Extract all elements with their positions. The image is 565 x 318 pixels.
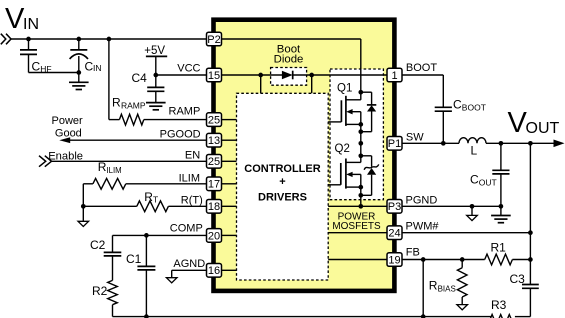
wire VCC to boot diode — [222, 74, 283, 76]
junction CIN bottom — [76, 70, 81, 75]
junction C4 — [153, 73, 158, 78]
svg-text:IN: IN — [93, 63, 102, 73]
svg-text:P1: P1 — [388, 138, 401, 150]
svg-text:R: R — [98, 160, 107, 174]
wire L to VOUT arrow — [486, 142, 557, 144]
junction VIN/CHF — [26, 37, 31, 42]
node VIN input chevron — [1, 34, 11, 45]
wire RT to pin 18 — [168, 205, 206, 207]
svg-text:PWM#: PWM# — [406, 221, 440, 233]
power mosfets block — [330, 69, 383, 200]
pin 17 — [207, 177, 222, 191]
pin P2 — [207, 32, 222, 46]
svg-text:19: 19 — [388, 254, 400, 266]
svg-text:VCC: VCC — [177, 63, 200, 75]
svg-text:OUT: OUT — [526, 120, 560, 137]
wire COMP network to pin 20 — [113, 234, 207, 236]
wire VOUT bus down to C3 — [529, 143, 531, 284]
pin P1 — [387, 137, 402, 151]
resistor RRAMP — [119, 114, 143, 125]
junction RILIM/RT ground — [81, 204, 86, 209]
junction COUT/PGND — [499, 204, 504, 209]
resistor RT — [137, 201, 169, 212]
wire FB controller to pin 19 — [328, 259, 387, 261]
wire Enable to pin EN — [52, 160, 207, 162]
svg-text:C1: C1 — [126, 252, 142, 266]
svg-text:C2: C2 — [90, 238, 106, 252]
wire VIN to RRAMP — [108, 39, 110, 120]
junction VCC/controller — [258, 73, 263, 78]
svg-text:R2: R2 — [92, 284, 108, 298]
ground (C4) — [146, 102, 166, 104]
svg-text:R: R — [112, 96, 121, 110]
svg-text:13: 13 — [208, 135, 220, 147]
svg-text:C: C — [32, 60, 41, 74]
wire PGND pin P3 to grounds — [402, 205, 501, 207]
svg-text:T: T — [153, 195, 158, 205]
wire controller to Q2 gate — [328, 184, 341, 186]
wire RILIM to pin 17 — [126, 183, 207, 185]
svg-text:25: 25 — [208, 115, 220, 127]
node Enable input chevron — [39, 156, 52, 167]
pin 1 — [387, 68, 402, 82]
ground (RILIM/RT) — [82, 206, 84, 221]
svg-text:Good: Good — [55, 127, 82, 139]
junction VOUT/feedback bus — [528, 141, 533, 146]
svg-text:Power: Power — [52, 115, 84, 127]
pin 13 — [207, 133, 222, 147]
wire PGOOD output arrow — [69, 139, 207, 141]
svg-text:R(T): R(T) — [181, 194, 203, 206]
controller block — [237, 93, 329, 280]
junction COUT — [499, 141, 504, 146]
svg-text:EN: EN — [185, 150, 200, 162]
junction PWM#/bus — [528, 230, 533, 235]
junction PGND arrow gnd — [470, 204, 475, 209]
pin 18 — [207, 200, 222, 214]
inductor L — [459, 138, 486, 144]
transistor Q2 (low-side MOSFET) — [335, 141, 379, 206]
svg-text:AGND: AGND — [173, 258, 205, 270]
wire controller to Q1 gate — [328, 121, 341, 123]
wire PWM# controller to pin 24 — [328, 232, 387, 234]
capacitor C4 — [155, 75, 157, 87]
svg-text:+5V: +5V — [144, 45, 165, 57]
pin 24 — [387, 226, 402, 240]
pin 20 — [207, 229, 222, 243]
svg-text:16: 16 — [208, 265, 220, 277]
svg-text:DRIVERS: DRIVERS — [258, 192, 307, 204]
wire boot diode cathode to pin 1 — [293, 74, 387, 76]
svg-text:CONTROLLER: CONTROLLER — [244, 163, 320, 175]
resistor R3 — [490, 315, 516, 318]
wire BOOT pin 1 to CBOOT — [402, 74, 443, 76]
pin 16 — [207, 264, 222, 278]
wire controller stubs to left pins — [222, 119, 237, 121]
ground (PGND arrow) — [467, 215, 478, 220]
svg-text:IN: IN — [23, 16, 39, 33]
svg-text:R: R — [144, 190, 153, 204]
resistor R1 — [485, 254, 513, 265]
svg-text:Q2: Q2 — [335, 143, 350, 155]
svg-text:RAMP: RAMP — [121, 101, 146, 111]
junction boot/driver — [309, 73, 314, 78]
capacitor C3 — [522, 284, 539, 286]
svg-text:Q1: Q1 — [337, 83, 352, 95]
svg-text:ILIM: ILIM — [179, 172, 200, 184]
svg-text:ILIM: ILIM — [107, 166, 122, 175]
svg-text:RAMP: RAMP — [169, 105, 201, 117]
svg-text:COMP: COMP — [170, 223, 203, 235]
svg-text:C4: C4 — [132, 71, 148, 85]
svg-text:C3: C3 — [510, 272, 526, 286]
junction COMP/C1 — [144, 233, 149, 238]
svg-text:+: + — [279, 176, 285, 188]
svg-text:HF: HF — [40, 64, 51, 74]
svg-text:P3: P3 — [388, 201, 401, 213]
resistor R2 — [108, 280, 118, 304]
svg-text:P2: P2 — [207, 34, 220, 46]
ground (AGND) — [166, 278, 177, 283]
svg-text:PGOOD: PGOOD — [160, 128, 201, 140]
svg-text:OUT: OUT — [479, 177, 497, 187]
svg-text:C: C — [453, 97, 462, 111]
pin 19 — [387, 253, 402, 267]
svg-text:17: 17 — [208, 179, 220, 191]
svg-text:C: C — [470, 172, 479, 186]
svg-text:R: R — [429, 278, 438, 292]
junction FB/RBIAS — [460, 257, 465, 262]
svg-text:15: 15 — [208, 70, 220, 82]
IC body U1 (power block) — [214, 20, 395, 291]
junction FB drop/rail — [421, 314, 426, 318]
capacitor CIN (polarized) — [78, 39, 80, 50]
ground (RBIAS) — [457, 305, 468, 310]
svg-text:FB: FB — [406, 247, 420, 259]
junction VIN/CIN — [76, 37, 81, 42]
svg-text:R1: R1 — [491, 241, 507, 255]
junction Q1 drain / body diode — [358, 90, 363, 95]
wire PGND Q2 source to pin P3 — [328, 205, 387, 207]
svg-text:1: 1 — [391, 70, 397, 82]
wire pin P2 to Q1 drain — [222, 38, 361, 40]
wire FB node — [402, 259, 485, 261]
wire +5V to VCC pin 15 — [155, 56, 157, 75]
svg-text:20: 20 — [208, 230, 220, 242]
boot diode block — [271, 68, 307, 86]
wire AGND — [172, 269, 207, 271]
capacitor COUT — [500, 143, 502, 170]
ground (input caps) — [78, 73, 80, 83]
capacitor CBOOT — [435, 106, 452, 108]
wire RILIM left to ground node — [83, 183, 93, 185]
wire RT left to ground node — [83, 205, 137, 207]
junction C1/rail — [144, 314, 149, 318]
pin 25 — [207, 155, 222, 169]
wire CHF bottom to CIN bottom — [29, 72, 79, 74]
wire bottom return rail — [113, 316, 491, 318]
resistor RILIM — [93, 178, 126, 189]
svg-text:Diode: Diode — [274, 54, 304, 66]
capacitor C1 — [145, 235, 147, 266]
wire FB drop to rail — [422, 260, 424, 317]
transistor Q1 (high-side MOSFET) — [337, 83, 376, 144]
svg-text:18: 18 — [208, 201, 220, 213]
ground (COUT) — [500, 206, 502, 215]
svg-text:BOOT: BOOT — [406, 62, 437, 74]
svg-text:V: V — [5, 3, 25, 35]
junction R1/bus — [528, 257, 533, 262]
svg-text:PGND: PGND — [406, 195, 438, 207]
svg-text:V: V — [508, 107, 528, 139]
pin P3 — [387, 200, 402, 214]
svg-text:BIAS: BIAS — [438, 284, 456, 293]
svg-text:L: L — [471, 144, 478, 158]
junction CBOOT/SW — [441, 141, 446, 146]
wire SW to VOUT — [402, 142, 459, 144]
svg-text:MOSFETS: MOSFETS — [332, 221, 381, 232]
junction FB/rail drop — [421, 257, 426, 262]
svg-text:R3: R3 — [491, 298, 507, 312]
wire PWM# to VOUT bus — [402, 232, 530, 234]
wire RRAMP to pin 25 — [144, 119, 207, 121]
pin 25 — [207, 113, 222, 127]
capacitor C2 — [112, 235, 114, 252]
svg-text:24: 24 — [388, 228, 400, 240]
junction Q2 source/PGND — [358, 204, 363, 209]
boot diode D1 — [282, 71, 293, 80]
pin 15 — [207, 68, 222, 82]
svg-text:Enable: Enable — [48, 150, 83, 162]
capacitor CHF — [28, 39, 30, 50]
svg-text:BOOT: BOOT — [462, 102, 486, 112]
svg-text:SW: SW — [406, 131, 424, 143]
svg-text:25: 25 — [208, 156, 220, 168]
resistor RBIAS — [461, 260, 463, 268]
junction VIN/RRAMP — [107, 37, 112, 42]
wire VIN rail to pin P2 — [11, 38, 207, 40]
